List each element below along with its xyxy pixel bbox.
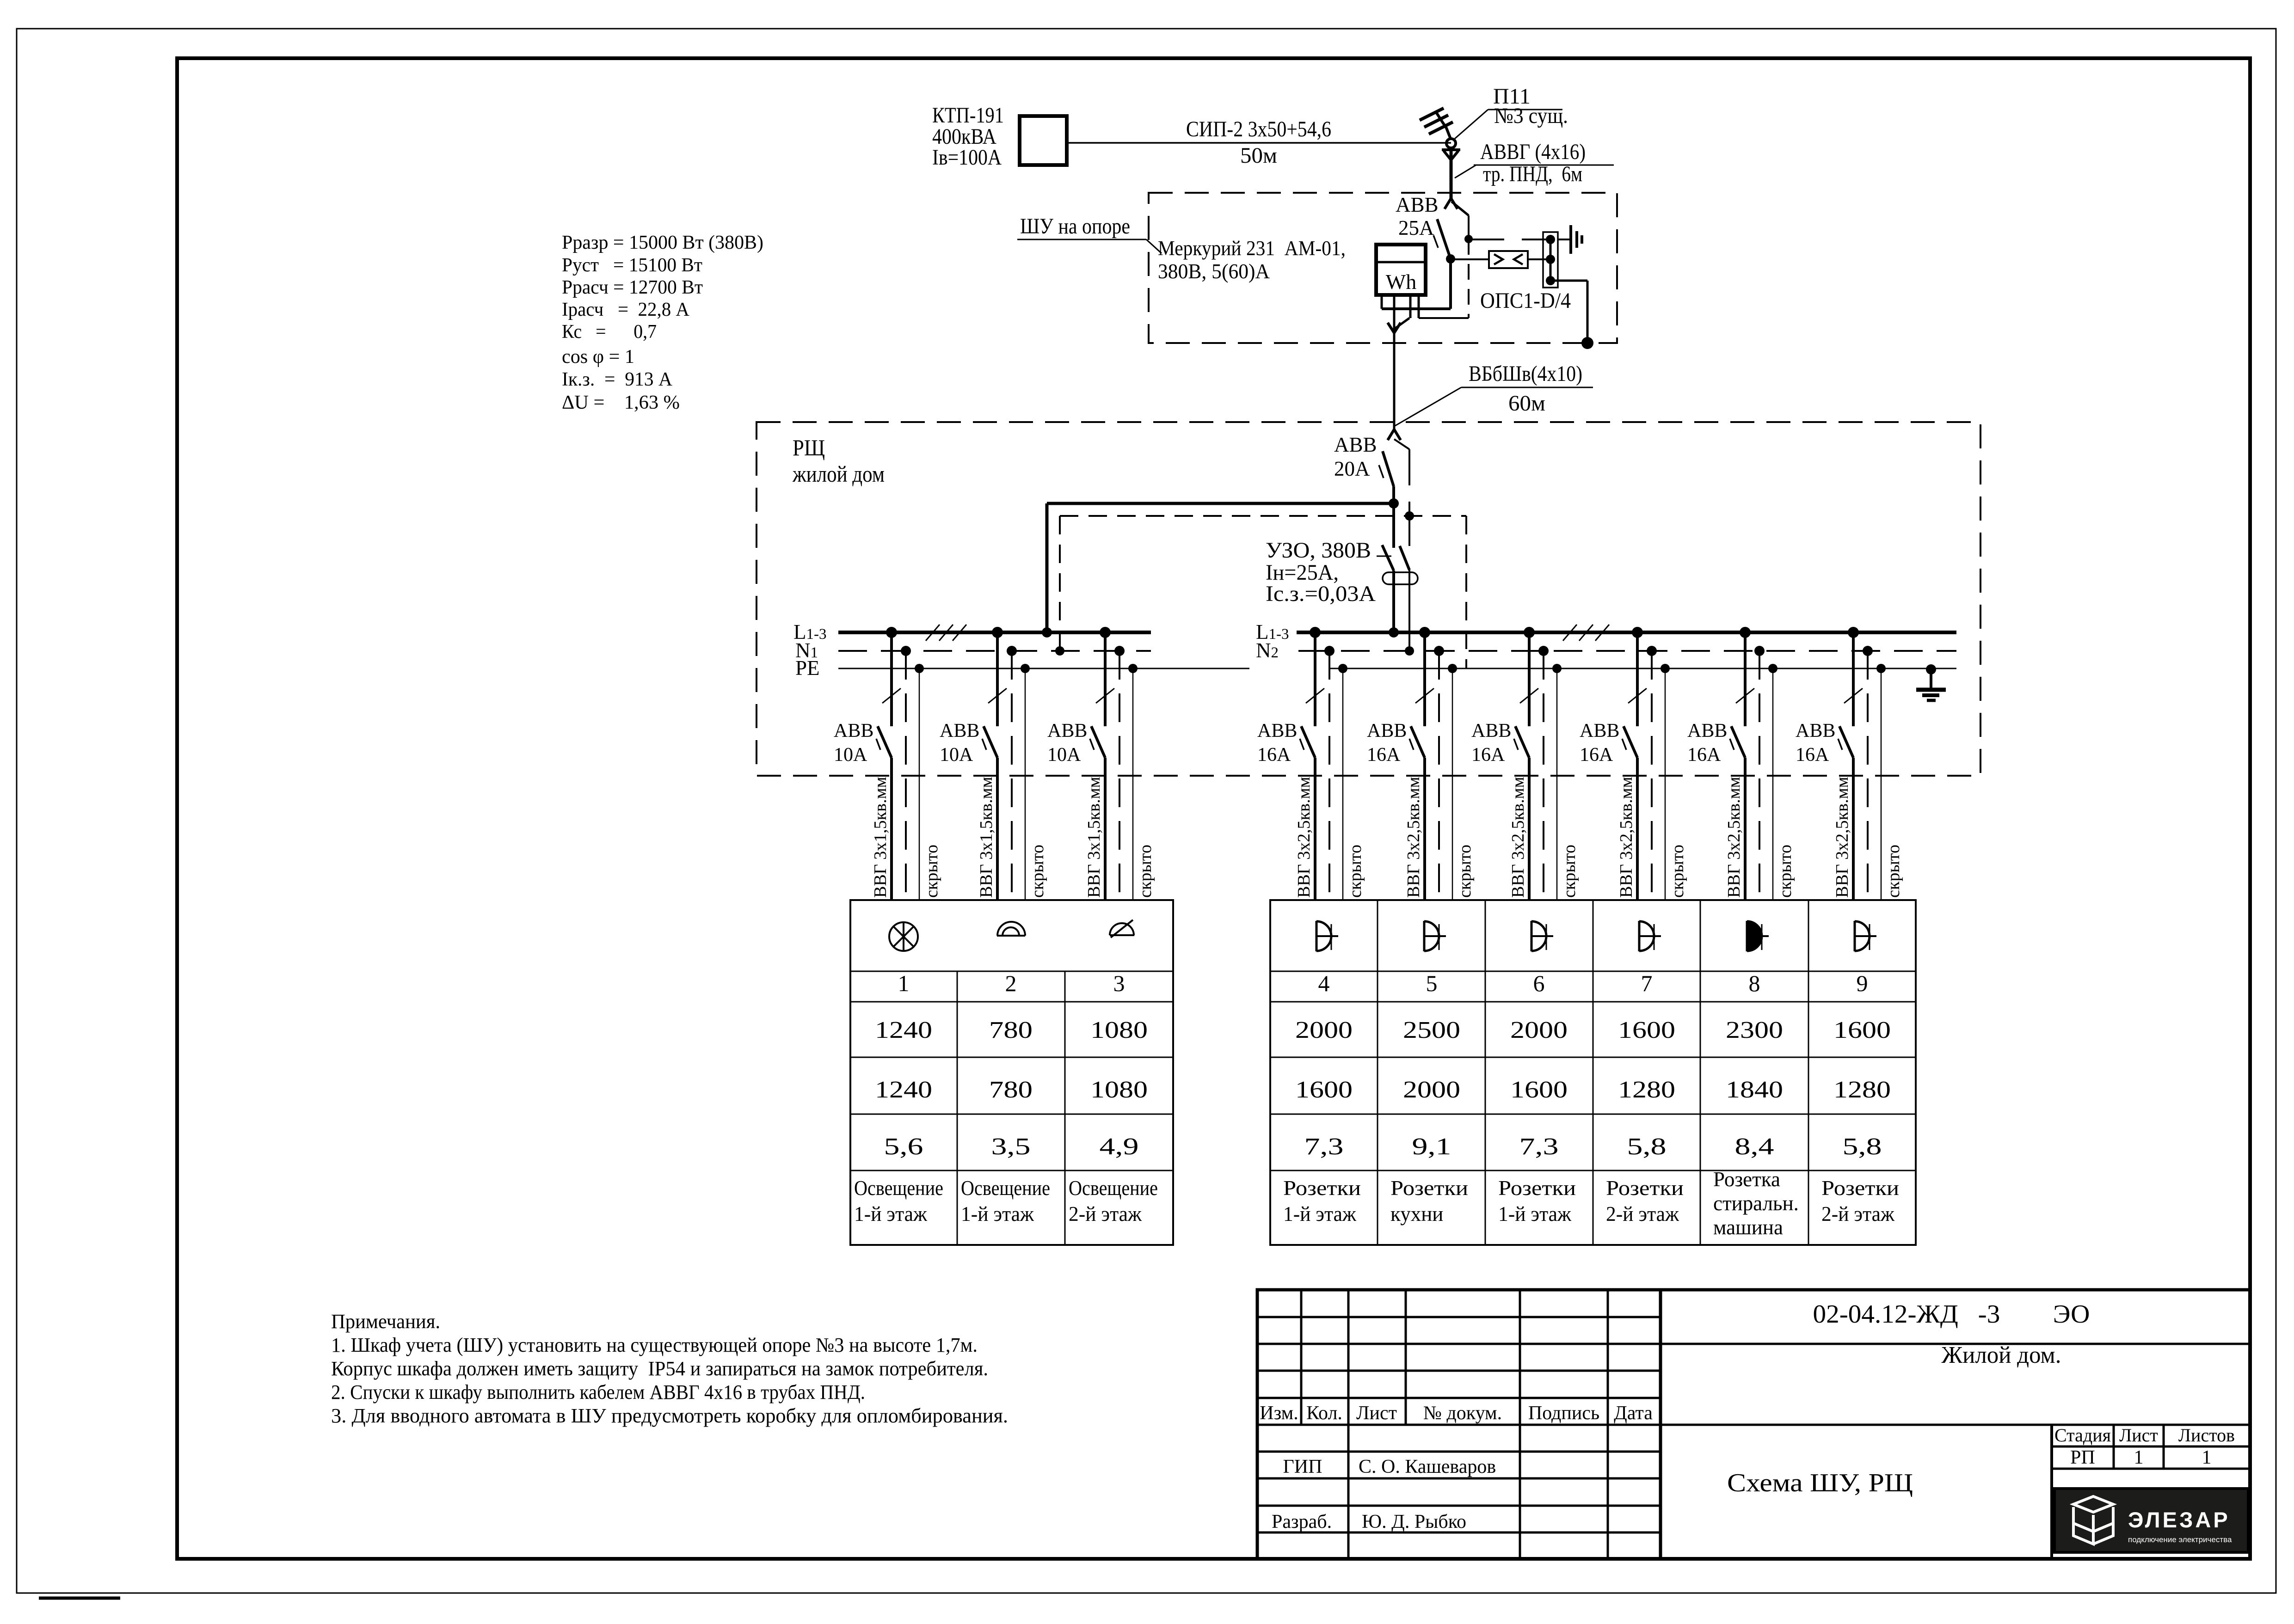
- svg-text:кухни: кухни: [1390, 1202, 1443, 1226]
- svg-text:ВВГ 3х2,5кв.мм: ВВГ 3х2,5кв.мм: [1508, 777, 1528, 898]
- svg-text:4,9: 4,9: [1100, 1134, 1139, 1160]
- svg-text:2: 2: [1005, 970, 1017, 996]
- svg-text:1840: 1840: [1726, 1077, 1783, 1103]
- svg-text:ВВГ 3х2,5кв.мм: ВВГ 3х2,5кв.мм: [1617, 777, 1636, 898]
- svg-text:Освещение: Освещение: [1069, 1177, 1158, 1200]
- svg-text:Ррасч = 12700 Вт: Ррасч = 12700 Вт: [562, 277, 703, 298]
- svg-text:ВВГ 3х2,5кв.мм: ВВГ 3х2,5кв.мм: [1724, 777, 1744, 898]
- svg-text:Листов: Листов: [2178, 1425, 2235, 1446]
- svg-text:ВБбШв(4х10): ВБбШв(4х10): [1469, 362, 1582, 386]
- svg-text:1-й этаж: 1-й этаж: [961, 1202, 1034, 1226]
- svg-text:2-й этаж: 2-й этаж: [1069, 1202, 1142, 1226]
- svg-text:ВВГ 3х2,5кв.мм: ВВГ 3х2,5кв.мм: [1833, 777, 1852, 898]
- svg-text:Розетки: Розетки: [1283, 1177, 1361, 1200]
- svg-text:2000: 2000: [1295, 1017, 1353, 1043]
- svg-text:10А: 10А: [1047, 744, 1081, 766]
- svg-text:ОПС1-D/4: ОПС1-D/4: [1480, 288, 1571, 313]
- svg-text:Изм.: Изм.: [1260, 1403, 1298, 1424]
- svg-text:4: 4: [1318, 970, 1330, 996]
- svg-text:Дата: Дата: [1614, 1403, 1653, 1424]
- svg-text:1280: 1280: [1618, 1077, 1675, 1103]
- svg-text:скрыто: скрыто: [1455, 845, 1475, 898]
- svg-text:2-й этаж: 2-й этаж: [1606, 1202, 1679, 1226]
- svg-text:780: 780: [989, 1017, 1033, 1043]
- svg-text:скрыто: скрыто: [1884, 845, 1903, 898]
- svg-text:Руст = 15100 Вт: Руст = 15100 Вт: [562, 255, 702, 276]
- svg-text:АВВ: АВВ: [1047, 720, 1087, 742]
- svg-text:16А: 16А: [1471, 744, 1505, 766]
- svg-text:тр. ПНД, 6м: тр. ПНД, 6м: [1483, 162, 1582, 186]
- svg-text:АВВ: АВВ: [1396, 193, 1439, 216]
- svg-text:Розетки: Розетки: [1821, 1177, 1899, 1200]
- svg-text:16А: 16А: [1687, 744, 1721, 766]
- svg-text:ЭЛЕЗАР: ЭЛЕЗАР: [2128, 1508, 2230, 1532]
- svg-text:1080: 1080: [1090, 1017, 1148, 1043]
- svg-text:Розетки: Розетки: [1606, 1177, 1684, 1200]
- svg-text:6: 6: [1533, 970, 1545, 996]
- svg-text:жилой дом: жилой дом: [792, 461, 885, 487]
- svg-text:Ю. Д. Рыбко: Ю. Д. Рыбко: [1362, 1511, 1466, 1532]
- svg-text:Розетки: Розетки: [1498, 1177, 1576, 1200]
- svg-text:8: 8: [1749, 970, 1760, 996]
- svg-text:СИП-2 3x50+54,6: СИП-2 3x50+54,6: [1186, 117, 1331, 141]
- svg-text:Кол.: Кол.: [1306, 1403, 1342, 1424]
- svg-text:скрыто: скрыто: [1346, 845, 1365, 898]
- svg-text:1-й этаж: 1-й этаж: [1498, 1202, 1572, 1226]
- svg-text:2. Спуски к шкафу выполнить ка: 2. Спуски к шкафу выполнить кабелем АВВГ…: [331, 1381, 865, 1403]
- svg-text:2-й этаж: 2-й этаж: [1821, 1202, 1895, 1226]
- svg-text:АВВ: АВВ: [1580, 720, 1619, 742]
- svg-text:подключение электричества: подключение электричества: [2128, 1535, 2232, 1544]
- svg-text:02-04.12-ЖД -3 ЭО: 02-04.12-ЖД -3 ЭО: [1813, 1300, 2090, 1329]
- svg-text:16А: 16А: [1796, 744, 1829, 766]
- svg-text:УЗО, 380В: УЗО, 380В: [1266, 538, 1371, 563]
- svg-text:1: 1: [898, 970, 910, 996]
- svg-text:Iрасч = 22,8 А: Iрасч = 22,8 А: [562, 299, 690, 320]
- svg-text:АВВ: АВВ: [1257, 720, 1297, 742]
- svg-text:АВВ: АВВ: [1796, 720, 1835, 742]
- svg-text:10А: 10А: [940, 744, 973, 766]
- svg-text:9: 9: [1857, 970, 1868, 996]
- svg-text:cos φ = 1: cos φ = 1: [562, 346, 634, 368]
- svg-text:ВВГ 3х1,5кв.мм: ВВГ 3х1,5кв.мм: [871, 777, 890, 898]
- svg-text:1280: 1280: [1833, 1077, 1891, 1103]
- svg-text:2000: 2000: [1403, 1077, 1460, 1103]
- svg-text:1600: 1600: [1833, 1017, 1891, 1043]
- svg-text:5,8: 5,8: [1627, 1134, 1667, 1160]
- svg-text:1: 1: [2134, 1447, 2144, 1468]
- svg-text:5: 5: [1426, 970, 1438, 996]
- svg-text:ВВГ 3х1,5кв.мм: ВВГ 3х1,5кв.мм: [1084, 777, 1104, 898]
- svg-text:ШУ на опоре: ШУ на опоре: [1020, 214, 1130, 239]
- svg-text:380В, 5(60)А: 380В, 5(60)А: [1158, 260, 1270, 283]
- svg-text:Iв=100А: Iв=100А: [932, 145, 1002, 170]
- svg-text:Стадия: Стадия: [2054, 1425, 2111, 1446]
- svg-text:8,4: 8,4: [1735, 1134, 1774, 1160]
- svg-text:3: 3: [1113, 970, 1125, 996]
- svg-text:Жилой дом.: Жилой дом.: [1942, 1342, 2061, 1368]
- svg-text:Примечания.: Примечания.: [331, 1310, 440, 1333]
- svg-text:16А: 16А: [1367, 744, 1401, 766]
- svg-text:1: 1: [2202, 1447, 2212, 1468]
- svg-text:ВВГ 3х2,5кв.мм: ВВГ 3х2,5кв.мм: [1404, 777, 1423, 898]
- svg-text:скрыто: скрыто: [1136, 845, 1155, 898]
- svg-text:60м: 60м: [1508, 391, 1545, 416]
- svg-text:ΔU = 1,63 %: ΔU = 1,63 %: [562, 392, 680, 413]
- svg-text:25А: 25А: [1398, 216, 1434, 239]
- svg-text:АВВГ (4х16): АВВГ (4х16): [1480, 140, 1586, 164]
- svg-text:2500: 2500: [1403, 1017, 1460, 1043]
- svg-text:1080: 1080: [1090, 1077, 1148, 1103]
- svg-text:АВВ: АВВ: [1334, 433, 1377, 456]
- svg-text:АВВ: АВВ: [940, 720, 979, 742]
- svg-text:Разраб.: Разраб.: [1272, 1511, 1332, 1532]
- svg-text:2300: 2300: [1726, 1017, 1783, 1043]
- svg-text:№3 сущ.: №3 сущ.: [1494, 104, 1568, 128]
- svg-text:скрыто: скрыто: [922, 845, 941, 898]
- svg-text:50м: 50м: [1240, 143, 1277, 168]
- svg-text:Подпись: Подпись: [1528, 1403, 1599, 1424]
- svg-text:16А: 16А: [1257, 744, 1291, 766]
- svg-text:16А: 16А: [1580, 744, 1613, 766]
- svg-text:стиральн.: стиральн.: [1713, 1192, 1799, 1215]
- svg-text:ГИП: ГИП: [1283, 1456, 1322, 1477]
- svg-text:ВВГ 3х1,5кв.мм: ВВГ 3х1,5кв.мм: [977, 777, 996, 898]
- svg-text:Схема ШУ, РЩ: Схема ШУ, РЩ: [1727, 1469, 1913, 1497]
- svg-text:АВВ: АВВ: [1471, 720, 1511, 742]
- svg-text:№ докум.: № докум.: [1423, 1403, 1502, 1424]
- svg-text:скрыто: скрыто: [1776, 845, 1795, 898]
- svg-text:ВВГ 3х2,5кв.мм: ВВГ 3х2,5кв.мм: [1294, 777, 1314, 898]
- svg-text:20А: 20А: [1334, 457, 1370, 480]
- svg-text:PE: PE: [795, 656, 820, 680]
- svg-text:Корпус шкафа должен иметь защи: Корпус шкафа должен иметь защиту IP54 и …: [331, 1357, 988, 1380]
- svg-text:9,1: 9,1: [1412, 1134, 1451, 1160]
- svg-text:1240: 1240: [875, 1017, 932, 1043]
- svg-text:7: 7: [1641, 970, 1653, 996]
- svg-text:7,3: 7,3: [1519, 1134, 1559, 1160]
- svg-text:Розетка: Розетка: [1713, 1168, 1780, 1191]
- svg-text:РЩ: РЩ: [793, 435, 825, 460]
- svg-text:3. Для вводного автомата в ШУ: 3. Для вводного автомата в ШУ предусмотр…: [331, 1404, 1008, 1427]
- svg-text:5,6: 5,6: [884, 1134, 923, 1160]
- svg-text:Розетки: Розетки: [1390, 1177, 1468, 1200]
- svg-text:Iк.з. = 913 А: Iк.з. = 913 А: [562, 369, 673, 390]
- svg-text:скрыто: скрыто: [1028, 845, 1047, 898]
- svg-text:Освещение: Освещение: [961, 1177, 1050, 1200]
- svg-text:10А: 10А: [834, 744, 867, 766]
- svg-text:1600: 1600: [1510, 1077, 1568, 1103]
- svg-text:1-й этаж: 1-й этаж: [854, 1202, 928, 1226]
- svg-text:3,5: 3,5: [991, 1134, 1031, 1160]
- svg-text:780: 780: [989, 1077, 1033, 1103]
- svg-text:2000: 2000: [1510, 1017, 1568, 1043]
- svg-text:1600: 1600: [1295, 1077, 1353, 1103]
- svg-text:1. Шкаф учета (ШУ) установить: 1. Шкаф учета (ШУ) установить на существ…: [331, 1334, 978, 1356]
- svg-text:1-й этаж: 1-й этаж: [1283, 1202, 1357, 1226]
- svg-text:АВВ: АВВ: [1687, 720, 1727, 742]
- svg-text:РП: РП: [2070, 1447, 2095, 1468]
- svg-text:7,3: 7,3: [1304, 1134, 1344, 1160]
- svg-text:5,8: 5,8: [1843, 1134, 1882, 1160]
- svg-text:Лист: Лист: [2119, 1425, 2158, 1446]
- svg-text:скрыто: скрыто: [1560, 845, 1579, 898]
- svg-text:1240: 1240: [875, 1077, 932, 1103]
- svg-text:Wh: Wh: [1386, 270, 1416, 294]
- svg-text:машина: машина: [1713, 1216, 1783, 1239]
- svg-text:Лист: Лист: [1356, 1403, 1397, 1424]
- svg-text:Рразр = 15000 Вт (380В): Рразр = 15000 Вт (380В): [562, 232, 763, 253]
- svg-text:Кс = 0,7: Кс = 0,7: [562, 321, 657, 343]
- svg-text:скрыто: скрыто: [1668, 845, 1687, 898]
- svg-text:Меркурий 231 АМ-01,: Меркурий 231 АМ-01,: [1158, 237, 1346, 260]
- svg-text:С. О. Кашеваров: С. О. Кашеваров: [1359, 1456, 1496, 1477]
- svg-text:АВВ: АВВ: [1367, 720, 1407, 742]
- svg-text:Iс.з.=0,03А: Iс.з.=0,03А: [1266, 582, 1376, 606]
- svg-text:Освещение: Освещение: [854, 1177, 943, 1200]
- svg-text:АВВ: АВВ: [834, 720, 873, 742]
- svg-text:1600: 1600: [1618, 1017, 1675, 1043]
